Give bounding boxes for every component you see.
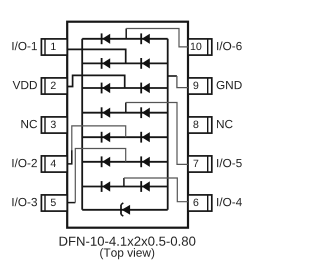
diode D4b (from GND) [141,107,150,118]
wire pin2 (VDD) to row3 middle [67,75,125,88]
diode D7b (from GND) [141,181,150,192]
zener row wire [82,209,168,211]
pin 2 box [41,78,67,94]
diode D2a (to rail) [102,58,111,69]
label NC (left) [21,120,37,128]
internal GND-rail bus (right) [167,39,169,210]
row 5 wire [82,136,168,138]
pin 8 box [188,117,212,133]
diode D5a (to rail) [102,132,111,143]
diode D3b (from GND) [141,83,150,94]
label I/O-2 (left) [12,159,37,168]
wire row7 middle to pin6 (I/O-4) [123,178,125,187]
pin 10 box [188,39,212,55]
label I/O-5 (right) [217,159,242,168]
diode D1a (to rail) [102,33,111,44]
diode D4a (to rail) [102,107,111,118]
wire row4 middle to pin7 (I/O-5) [125,103,127,113]
label I/O-4 (right) [217,198,242,207]
row 4 wire [82,112,168,114]
diode D3a (to rail) [102,83,111,94]
wire pin9 (GND) to right bus [168,75,177,77]
pin 9 box [188,78,212,94]
diode D5b (from GND) [141,132,150,143]
pin 1 box [41,39,67,55]
pin 6 box [188,195,212,211]
label NC (right) [217,120,233,128]
row 2 wire [82,62,168,64]
diode D2b (from GND) [141,58,150,69]
internal cathode-rail bus (left) [81,39,83,210]
pin 7 box [188,156,212,172]
caption (Top view) [100,248,154,259]
diode D1b (from GND) [141,33,150,44]
diode D7a (to rail) [102,181,111,192]
row 7 wire [82,186,168,188]
wire pin1 (I/O-1) to row2 middle [67,49,126,63]
wire pin5 (I/O-3) to row6 middle [67,202,75,204]
label I/O-3 (left) [12,198,37,207]
row 3 wire [82,87,168,89]
caption package name [60,237,196,246]
zener diode VDD/GND clamp [121,203,130,216]
row 1 wire [82,38,168,40]
label I/O-1 (left) [12,42,37,51]
DFN-10 package body outline [67,22,188,228]
pin 3 box [41,117,67,133]
diode D6a (to rail) [102,156,111,167]
label I/O-6 (right) [217,42,242,51]
wire pin4 (I/O-2) to row5 middle [67,150,72,164]
pin 4 box [41,156,67,172]
label GND (right) [217,81,242,89]
wire row1 middle to pin10 (I/O-6) [125,29,127,39]
label VDD (left) [13,81,37,89]
pin 5 box [41,195,67,211]
diode D6b (from GND) [141,156,150,167]
row 6 wire [82,161,168,163]
